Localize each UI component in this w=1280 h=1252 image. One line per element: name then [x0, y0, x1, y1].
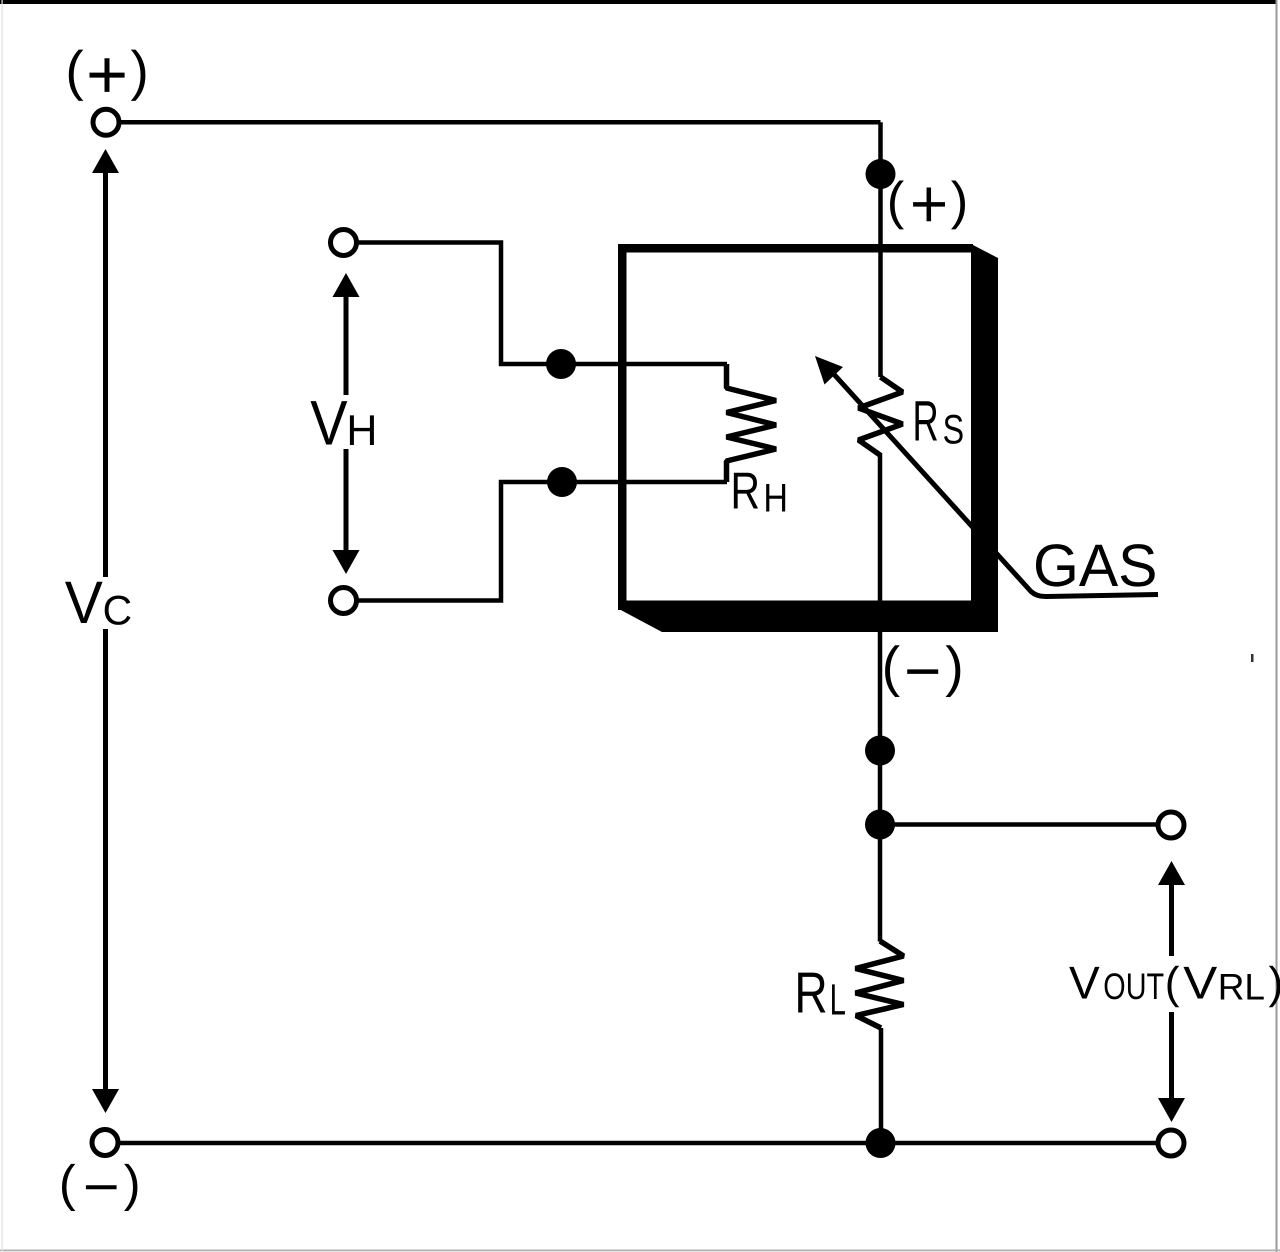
- terminal (-) bottom-left: [92, 1130, 118, 1156]
- junction dot Vout tap: [865, 810, 895, 840]
- terminal Vout bottom: [1158, 1130, 1184, 1156]
- wire VH top: [358, 243, 727, 365]
- svg-text:R: R: [731, 462, 761, 520]
- svg-text:): ): [131, 40, 149, 102]
- GAS pointer arrow: [815, 356, 1158, 597]
- terminal VH bottom: [331, 588, 357, 614]
- Vout measurement arrow: [1158, 861, 1185, 1122]
- svg-text:S: S: [943, 406, 965, 452]
- label VH: [310, 388, 377, 458]
- svg-text:R: R: [794, 961, 827, 1026]
- label (+) sensor top: [887, 171, 968, 230]
- svg-text:(: (: [887, 171, 905, 230]
- svg-text:C: C: [103, 586, 133, 633]
- wire VH bottom: [358, 482, 727, 601]
- junction dot heater top: [546, 349, 576, 379]
- Vc measurement arrow: [92, 149, 119, 1113]
- svg-text:OUT: OUT: [1103, 966, 1164, 1007]
- wire sensor bottom vertical: [878, 453, 883, 942]
- svg-text:H: H: [763, 476, 788, 520]
- VH measurement arrow: [333, 273, 360, 574]
- svg-text:): ): [124, 1155, 141, 1212]
- wire top horizontal: [120, 120, 881, 125]
- junction dot heater bottom: [547, 467, 577, 497]
- svg-text:L: L: [830, 976, 846, 1025]
- svg-text:(: (: [59, 1155, 76, 1212]
- svg-text:GAS: GAS: [1033, 532, 1158, 599]
- label (+) top-left: [65, 40, 148, 102]
- label (-) bottom-left: [59, 1155, 141, 1212]
- junction dot bottom: [866, 1128, 896, 1158]
- svg-text:): ): [945, 636, 963, 698]
- svg-text:V: V: [65, 569, 103, 636]
- resistor RS (sensor): [859, 377, 903, 455]
- wire bottom horizontal: [119, 1141, 1157, 1146]
- svg-text:): ): [951, 171, 968, 230]
- label RS: [913, 390, 965, 454]
- terminal (+) top-left: [93, 109, 119, 135]
- svg-text:(: (: [65, 40, 83, 102]
- label RH: [731, 462, 789, 520]
- label VOUT(VRL): [1069, 957, 1280, 1009]
- wire Vout tap horizontal: [880, 822, 1157, 827]
- svg-text:V: V: [310, 388, 347, 458]
- junction dot sensor (+): [866, 159, 896, 189]
- resistor RL: [856, 941, 904, 1028]
- sensor box body: [618, 244, 998, 632]
- svg-text:(: (: [882, 636, 901, 698]
- svg-text:RL: RL: [1218, 967, 1265, 1008]
- stray mark right edge: [1251, 654, 1254, 662]
- wire RL bottom vertical: [879, 1028, 884, 1143]
- terminal VH top: [331, 230, 357, 256]
- svg-text:V: V: [1183, 957, 1217, 1009]
- label Vc: [65, 569, 132, 636]
- svg-text:): ): [1269, 959, 1280, 1008]
- terminal Vout top: [1158, 812, 1184, 838]
- svg-text:H: H: [346, 407, 377, 455]
- label RL: [794, 961, 845, 1026]
- svg-text:(: (: [1165, 959, 1180, 1008]
- wire sensor top vertical: [878, 122, 883, 377]
- svg-text:V: V: [1069, 957, 1100, 1009]
- svg-text:R: R: [913, 390, 939, 454]
- junction dot sensor (-): [865, 736, 895, 766]
- resistor RH (heater): [727, 364, 777, 482]
- label (-) sensor bottom: [882, 636, 964, 698]
